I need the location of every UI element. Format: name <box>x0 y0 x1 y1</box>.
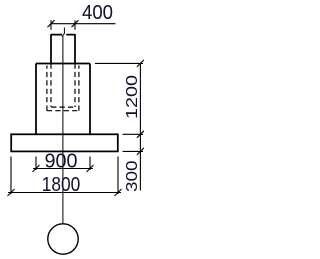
svg-text:400: 400 <box>82 2 113 24</box>
break mark on axis at column top <box>62 28 65 37</box>
dim 400: tick left <box>48 20 55 27</box>
socket cup walls (dashed) <box>47 66 79 111</box>
svg-text:300: 300 <box>124 160 141 192</box>
dim 900: tick right <box>87 165 94 172</box>
dim 1800: tick left <box>8 189 15 196</box>
dim 400: extension lines <box>51 20 75 30</box>
column bottom (dashed) <box>51 106 75 108</box>
tick at footing bottom <box>137 148 144 155</box>
svg-text:1200: 1200 <box>124 75 141 119</box>
dim 900: extension lines <box>36 157 90 171</box>
dim 1800: tick right <box>115 189 122 196</box>
axis center line <box>62 36 64 223</box>
column hidden edges inside socket (dashed) <box>51 64 75 108</box>
svg-text:1800: 1800 <box>42 174 81 196</box>
extension line pedestal top <box>95 62 143 64</box>
extension line footing top <box>123 133 144 135</box>
extension line footing bottom <box>123 150 144 152</box>
tick at footing top <box>137 131 144 138</box>
axis bubble circle <box>48 224 78 254</box>
dim 1800: extension lines <box>11 157 118 195</box>
dim 900: tick left <box>33 165 40 172</box>
column C1 outline (solid above pedestal) <box>51 34 75 63</box>
dim 1200/300: vertical dimension line <box>139 63 141 190</box>
pedestal block <box>36 64 90 135</box>
footing slab <box>11 134 118 151</box>
dim 400: tick right <box>72 20 79 27</box>
dim 400: dimension line <box>51 23 116 25</box>
svg-text:900: 900 <box>45 150 78 172</box>
dim 900: dimension line <box>33 168 93 170</box>
dim 1800: dimension line <box>8 192 121 194</box>
tick at pedestal top <box>137 60 144 67</box>
socket floor (dashed) <box>47 110 79 112</box>
